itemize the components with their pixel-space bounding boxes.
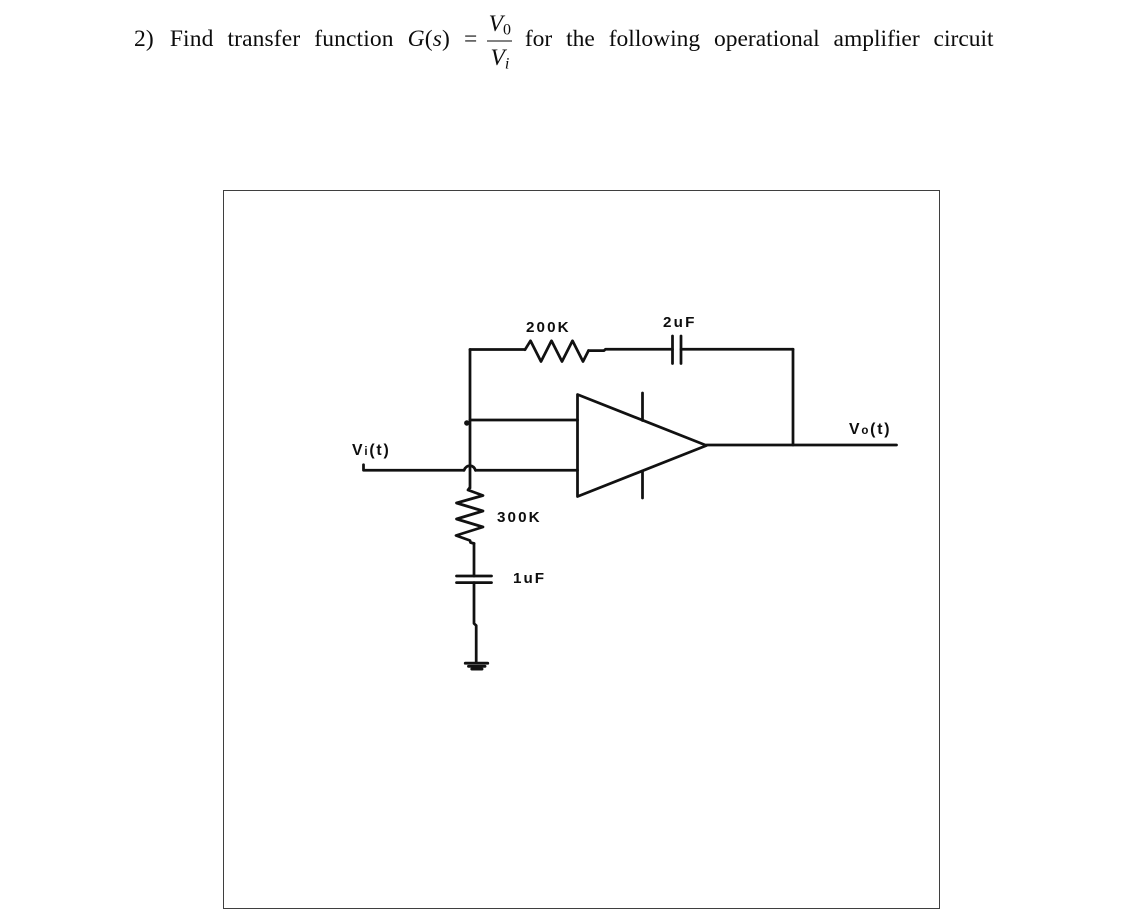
op-amp positive supply tick	[641, 393, 644, 421]
wire: resistor to capacitor C2	[473, 544, 476, 577]
op-amp negative supply tick	[641, 471, 644, 498]
wire: lower op-amp input lead	[476, 469, 578, 472]
label 300K	[497, 509, 542, 526]
wire: feedback middle segment (resistor to capacitor)	[589, 349, 673, 350]
capacitor C2 1uF plates	[457, 576, 492, 583]
wire: capacitor C2 to ground	[474, 583, 476, 662]
wire: input crossing bump at node	[464, 466, 476, 471]
capacitor C1 2uF plates	[673, 336, 682, 364]
label Vo(t)	[849, 421, 891, 439]
wire: output lead	[707, 444, 897, 447]
wire: upper op-amp input lead	[470, 419, 578, 422]
label 200K	[526, 319, 571, 336]
wire: input Vi lead with terminal tick	[364, 465, 465, 471]
op-amp U1 triangle	[578, 395, 707, 497]
resistor R1 200K (zigzag)	[525, 341, 589, 362]
label 2uF	[663, 314, 697, 331]
node A junction dot	[464, 420, 469, 425]
wire: top feedback left segment	[470, 348, 525, 351]
resistor R2 300K (vertical zigzag)	[456, 488, 483, 544]
ground symbol	[465, 663, 487, 669]
title: problem statement	[134, 0, 1054, 79]
wire: feedback right segment (capacitor to right corner)	[681, 348, 793, 351]
border frame	[223, 190, 940, 909]
wire: right vertical feedback drop	[792, 349, 795, 445]
label Vi(t)	[352, 442, 391, 460]
label 1uF	[513, 570, 546, 587]
wire: left vertical (node column)	[469, 350, 472, 489]
